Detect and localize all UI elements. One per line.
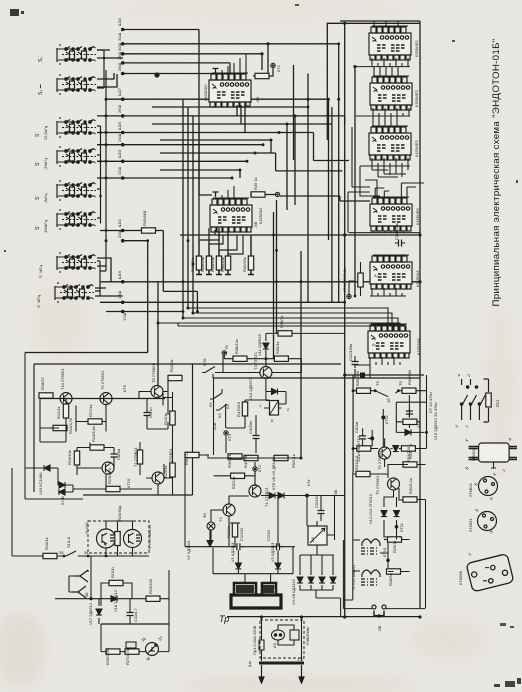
transistor T2 bbox=[223, 504, 235, 516]
plug -5V bbox=[372, 605, 386, 618]
wire amp box right edge bbox=[83, 364, 193, 495]
switch group S1 32Hz bbox=[57, 44, 96, 65]
wire x219 bbox=[218, 228, 220, 256]
svg-text:R15/2к: R15/2к bbox=[169, 359, 174, 372]
resistor R16 1k bbox=[43, 553, 57, 558]
trimmer box above R27 bbox=[126, 642, 136, 648]
T stub above D2 bbox=[213, 192, 219, 197]
svg-text:КТ8 V8-V9 ДВ142: КТ8 V8-V9 ДВ142 bbox=[271, 457, 276, 490]
svg-text:31Ш: 31Ш bbox=[117, 33, 122, 41]
wire rail y617 bbox=[227, 616, 420, 618]
resistor R21 vertical with leads bbox=[484, 379, 489, 422]
svg-text:,5кГц: ,5кГц bbox=[43, 193, 48, 203]
svg-text:R17/1к: R17/1к bbox=[88, 404, 93, 417]
wire amp rail y398.5 bbox=[40, 398, 165, 400]
diode pair 5U-V bbox=[59, 482, 65, 488]
wires lower relay bbox=[226, 415, 256, 453]
svg-text:A₂: A₂ bbox=[372, 342, 377, 347]
resistor R27 4.7k bbox=[125, 649, 139, 654]
svg-text:R2/24к: R2/24к bbox=[231, 476, 236, 489]
cap C13 bbox=[406, 408, 413, 418]
resistor R1 10k vertical bbox=[232, 523, 237, 537]
wire pin24 bbox=[97, 144, 263, 146]
svg-text:R23/2,7к: R23/2,7к bbox=[107, 468, 112, 484]
wire KT2 stem bbox=[254, 462, 256, 485]
resistor R40 6.8k bbox=[142, 228, 156, 233]
svg-text:К155ИЕ5: К155ИЕ5 bbox=[415, 207, 420, 225]
svg-text:100кГц: 100кГц bbox=[43, 219, 48, 233]
resistor R33 200 bbox=[403, 462, 417, 467]
svg-text:R33/200: R33/200 bbox=[406, 446, 411, 462]
resistor R32 33 bbox=[403, 419, 417, 424]
pin number labels bbox=[117, 17, 127, 321]
resistor R42 20k bbox=[248, 256, 253, 270]
resistor R4 10k bbox=[244, 455, 258, 460]
svg-text:КТ10: КТ10 bbox=[126, 478, 131, 488]
bus wires upper bbox=[95, 21, 420, 617]
diode V9 bbox=[278, 493, 284, 499]
test point KT3 bbox=[224, 431, 228, 435]
svg-text:-50В: -50В bbox=[212, 422, 217, 431]
cap X box bbox=[290, 630, 299, 640]
wire cluster rail G1-G2 bbox=[97, 50, 104, 88]
resistor R35 180 bbox=[357, 388, 371, 393]
wire to switch bbox=[353, 390, 404, 392]
wire pin25 bbox=[97, 133, 349, 161]
svg-text:A₁: A₁ bbox=[374, 273, 379, 278]
wire amp box left bbox=[33, 364, 35, 492]
diode V18 bbox=[111, 596, 117, 602]
switch dots bbox=[374, 389, 377, 392]
power inlet wires bbox=[262, 617, 302, 661]
wire IC column stubs bbox=[373, 21, 404, 127]
svg-text:КТ11: КТ11 bbox=[384, 414, 389, 424]
junction KT6 bbox=[306, 494, 309, 497]
A2 bottom pin wires bbox=[355, 356, 400, 378]
svg-text:V10 2Д5672: V10 2Д5672 bbox=[248, 377, 253, 400]
flipflop IC A2 K155TM2 bbox=[368, 324, 410, 358]
wire V10 loop bbox=[266, 392, 286, 405]
wire top rail corner bbox=[327, 23, 420, 140]
svg-text:R28/56: R28/56 bbox=[388, 572, 393, 586]
zener V17 bbox=[96, 609, 102, 615]
PSU wires bbox=[185, 455, 345, 617]
wire pin21 + R40 bbox=[100, 231, 197, 312]
wires A1 pins bbox=[349, 262, 406, 296]
wire T1 row y495.5 bbox=[261, 495, 345, 497]
wire y107 bbox=[152, 106, 308, 108]
switch K5 lever bbox=[210, 389, 222, 399]
diode V8 bbox=[269, 493, 275, 499]
wire pin19 long bbox=[100, 281, 420, 283]
transistor pinout 2T6821 bbox=[479, 477, 498, 496]
svg-text:Ш25: Ш25 bbox=[117, 121, 122, 130]
wire V11 to junction bbox=[265, 350, 267, 359]
D5 pin wires bbox=[360, 158, 410, 177]
svg-text:-5В: -5В bbox=[377, 625, 382, 632]
wire x328.5 bbox=[328, 99, 330, 240]
svg-text:29Ш: 29Ш bbox=[117, 52, 122, 60]
svg-text:Т1 2Т6В21: Т1 2Т6В21 bbox=[264, 486, 269, 507]
V16 wires bbox=[25, 353, 83, 500]
wires T5 row bbox=[353, 402, 426, 467]
svg-text:Ша: Ша bbox=[247, 660, 252, 667]
switch pack B2 bbox=[460, 379, 485, 420]
junction dots mesh bbox=[105, 42, 357, 313]
transistor T3 bbox=[260, 367, 272, 379]
svg-text:R25/243: R25/243 bbox=[148, 578, 153, 594]
wire left rail x353 bbox=[352, 375, 354, 472]
test point KT7 bbox=[275, 192, 279, 196]
wire x158 bbox=[157, 282, 159, 385]
svg-text:½ V19 МВ101: ½ V19 МВ101 bbox=[351, 564, 356, 590]
wire G2 stubs bbox=[97, 73, 117, 87]
resistor R31b 4.3k bbox=[357, 446, 371, 451]
svg-text:R13/4,7к: R13/4,7к bbox=[68, 418, 73, 434]
resistor R19 vertical bbox=[74, 451, 79, 465]
relay K coil bbox=[270, 401, 279, 416]
wire y140 bbox=[160, 140, 271, 153]
svg-text:V3-V8 КД1113: V3-V8 КД1113 bbox=[291, 579, 296, 605]
cap C1 150 bbox=[233, 543, 243, 550]
svg-text:С9/1н: С9/1н bbox=[148, 407, 153, 418]
svg-text:Т9 2Т6551: Т9 2Т6551 bbox=[100, 370, 105, 390]
junction dot V11 bbox=[264, 357, 267, 360]
scan registration mark top-left bbox=[10, 9, 24, 16]
opto lamp left bbox=[97, 529, 116, 548]
transistor T1 bbox=[249, 485, 261, 497]
plug pins bbox=[259, 665, 304, 683]
diode at T5 bbox=[393, 446, 399, 452]
svg-text:Т9: Т9 bbox=[224, 345, 229, 350]
wires D5 to D6 bbox=[360, 166, 406, 196]
resistor R23 2.7k bbox=[106, 486, 120, 491]
transistor T9 2T6551 bbox=[100, 393, 112, 405]
wire G1 stubs bbox=[97, 50, 123, 58]
svg-text:RЭ1: RЭ1 bbox=[202, 357, 207, 366]
svg-text:R16/1к: R16/1к bbox=[44, 537, 49, 550]
loop wires bbox=[101, 583, 132, 599]
svg-text:22Ш: 22Ш bbox=[117, 167, 122, 175]
svg-text:Sˈ: Sˈ bbox=[35, 132, 41, 137]
wire x308 bbox=[307, 74, 309, 303]
counter IC D4 K155IE2 bbox=[370, 76, 412, 110]
resistor R47 510 vertical bbox=[242, 402, 247, 416]
svg-text:R14/5,6к: R14/5,6к bbox=[91, 426, 96, 442]
wire x193 bbox=[192, 116, 194, 313]
svg-text:С12/150п: С12/150п bbox=[348, 344, 353, 361]
junction dots bbox=[63, 555, 108, 558]
resistor value labels bbox=[190, 257, 247, 272]
svg-text:Sˈ: Sˈ bbox=[35, 195, 41, 200]
wire y432.4 bbox=[396, 395, 424, 432]
wire x301 bbox=[300, 251, 302, 458]
wires junction row bbox=[224, 355, 301, 373]
svg-text:V1 КД1113: V1 КД1113 bbox=[230, 542, 235, 562]
wires bottom row bbox=[185, 455, 302, 458]
svg-text:К155ИЕ2: К155ИЕ2 bbox=[414, 139, 419, 157]
wire cluster rail G3-G6 bbox=[97, 126, 101, 224]
svg-text:Ш27: Ш27 bbox=[117, 87, 122, 96]
svg-text:Т3 ПТАТ1: Т3 ПТАТ1 bbox=[253, 351, 258, 370]
test point KT11 dot bbox=[381, 416, 385, 420]
svg-text:К155ТМ2: К155ТМ2 bbox=[416, 337, 421, 355]
svg-text:V16 КС168А: V16 КС168А bbox=[38, 472, 43, 495]
diode V7 bbox=[207, 541, 213, 547]
wire x199 bbox=[198, 124, 200, 256]
svg-text:К155ЛА2: К155ЛА2 bbox=[258, 207, 263, 224]
svg-text:R47/510: R47/510 bbox=[236, 401, 241, 417]
wire to KT7 bbox=[251, 195, 370, 202]
wire amp rail y378 bbox=[213, 377, 420, 379]
svg-text:МВ101: МВ101 bbox=[471, 448, 476, 461]
phone capsule 1 bbox=[361, 539, 380, 554]
svg-text:С6/1м: С6/1м bbox=[354, 422, 359, 433]
audio wires bbox=[343, 465, 425, 609]
wire x213.5 relay feed bbox=[213, 378, 215, 455]
svg-text:V15 2Д5612 33 470п: V15 2Д5612 33 470п bbox=[433, 402, 438, 440]
diode V15 bbox=[405, 429, 411, 435]
wire y235 bbox=[180, 234, 420, 236]
cap C12 150p bbox=[352, 358, 359, 368]
svg-text:С14/220к: С14/220к bbox=[394, 223, 399, 240]
scan mark bottom-right bbox=[494, 678, 521, 687]
cap C2 33 bbox=[273, 543, 283, 550]
svg-text:R11/1к: R11/1к bbox=[163, 413, 168, 425]
svg-text:К155ИЕ2: К155ИЕ2 bbox=[414, 89, 419, 107]
svg-text:S₁ˈ: S₁ˈ bbox=[38, 55, 44, 62]
diode V11 bbox=[263, 343, 269, 349]
wire x228 bbox=[227, 228, 229, 256]
wire T2 bbox=[211, 496, 249, 547]
svg-text:К5: К5 bbox=[208, 402, 213, 407]
opto wires bbox=[106, 521, 149, 556]
wire x287 bbox=[286, 124, 288, 210]
resistor R31 3.3 bbox=[356, 471, 370, 476]
wire y153 bbox=[160, 153, 276, 171]
wire rail y624 bbox=[101, 623, 169, 625]
svg-text:-5В: -5В bbox=[253, 221, 258, 228]
svg-text:R46/10к: R46/10к bbox=[220, 257, 225, 272]
wire G7 link bbox=[97, 258, 111, 282]
wire x295 bbox=[294, 116, 296, 205]
wire R1 C1 C2 bbox=[230, 523, 240, 547]
wire pin30 bbox=[123, 54, 262, 70]
svg-text:Т8 2Т6821: Т8 2Т6821 bbox=[151, 363, 156, 383]
svg-text:КТ9: КТ9 bbox=[122, 384, 127, 392]
cap C5 150 bbox=[318, 507, 325, 517]
resistor R12 1k vertical bbox=[63, 404, 68, 418]
svg-text:½ V19: ½ V19 bbox=[84, 522, 89, 534]
svg-text:К155ЛА3: К155ЛА3 bbox=[415, 270, 420, 287]
svg-text:R27/4,7к: R27/4,7к bbox=[125, 649, 130, 665]
svg-text:,25кГц: ,25кГц bbox=[43, 158, 48, 170]
junction dot C6 bbox=[370, 436, 374, 440]
resistor R43 20k bbox=[206, 256, 211, 270]
wire top right connect bbox=[340, 20, 420, 22]
svg-text:А3: А3 bbox=[272, 642, 277, 648]
test point KT1 bbox=[271, 63, 275, 67]
bridge diodes V3-V6 bbox=[297, 577, 303, 583]
resistor R46 10k bbox=[225, 256, 230, 270]
zener V16 KS168A bbox=[44, 465, 50, 471]
svg-text:R21: R21 bbox=[495, 399, 500, 407]
wire pin28 bbox=[123, 73, 223, 75]
svg-text:-5В: -5В bbox=[255, 96, 260, 103]
switch group S6 100Hz bbox=[57, 209, 96, 230]
counter IC D6 K155IE5 bbox=[370, 197, 412, 231]
cap C14 220 bbox=[395, 240, 405, 247]
switch group S4 .25kHz bbox=[57, 146, 96, 167]
switch group S2 square-wave bbox=[57, 74, 96, 95]
wire amp box top bbox=[34, 363, 341, 365]
svg-text:Sˈ МГц: Sˈ МГц bbox=[38, 264, 43, 278]
svg-text:2Т6В21: 2Т6В21 bbox=[468, 482, 473, 497]
wire D2 top stubs bbox=[222, 186, 234, 199]
resistor R26 220k bbox=[106, 649, 120, 654]
resistor R5 5.1k bbox=[274, 455, 288, 460]
pin dots bbox=[121, 28, 160, 314]
T stub above D1 bbox=[213, 69, 219, 74]
transistor T6 2T6551 bbox=[388, 478, 400, 490]
svg-text:R30/5,1к: R30/5,1к bbox=[408, 478, 413, 494]
wire pin31 bbox=[123, 44, 339, 303]
wire pin22 bbox=[97, 177, 232, 179]
svg-text:С1/150: С1/150 bbox=[239, 527, 244, 541]
power transistor package KT805 bbox=[466, 554, 514, 592]
svg-text:R12/1к: R12/1к bbox=[56, 406, 61, 419]
transistor T6 KT315 bbox=[102, 462, 114, 474]
svg-text:1б́: 1б́ bbox=[386, 398, 391, 403]
wire left rail bbox=[12, 468, 106, 556]
svg-text:КТ2: КТ2 bbox=[257, 464, 262, 472]
wire pin20 corner x148 bbox=[123, 241, 148, 353]
switch group S8 bbox=[55, 282, 94, 303]
wire R50 bbox=[266, 333, 345, 341]
svg-text:R18/27: R18/27 bbox=[40, 376, 45, 390]
svg-text:V2 КД1113: V2 КД1113 bbox=[270, 542, 275, 562]
wire A6 bbox=[307, 496, 335, 556]
D4 pin wires bbox=[356, 108, 410, 116]
svg-text:R19/10к: R19/10к bbox=[67, 450, 72, 465]
headphone jack 1 bbox=[74, 570, 88, 582]
wire pin32 rail bbox=[123, 29, 199, 31]
diode V2 bbox=[275, 563, 281, 569]
svg-text:С8/1м: С8/1м bbox=[116, 449, 121, 460]
transistor T8 2T6821 bbox=[151, 386, 163, 398]
wire D1 top stubs bbox=[222, 54, 246, 74]
svg-text:Пр1 0,25А 250В: Пр1 0,25А 250В bbox=[252, 625, 257, 655]
svg-text:R26/220к: R26/220к bbox=[105, 648, 110, 665]
svg-text:С11/4,7: С11/4,7 bbox=[133, 608, 138, 622]
wire driver top rail bbox=[345, 374, 424, 376]
meter M1 bbox=[146, 643, 159, 656]
resistor R39 1k bbox=[251, 192, 265, 197]
test point KT10 dot bbox=[386, 559, 390, 563]
test point KT2 bbox=[253, 467, 257, 471]
wire x209 bbox=[208, 228, 210, 256]
svg-text:33: 33 bbox=[416, 423, 421, 428]
wire x251 bbox=[250, 235, 252, 256]
wire x183 bbox=[182, 99, 184, 318]
headphone jack 2 bbox=[72, 586, 86, 598]
svg-text:К155ИЕ2: К155ИЕ2 bbox=[414, 39, 419, 57]
transformer Tr core bbox=[231, 583, 281, 608]
resistor R14 5.6k bbox=[90, 445, 104, 450]
resistor R50 1k bbox=[278, 331, 292, 336]
extra junction dots bbox=[105, 22, 429, 619]
svg-text:1 2: 1 2 bbox=[297, 657, 303, 662]
svg-text:Т5 2Т6551: Т5 2Т6551 bbox=[377, 450, 382, 470]
svg-text:Sˈ: Sˈ bbox=[35, 225, 41, 230]
switch group S3 12.5kHz bbox=[57, 117, 96, 138]
svg-text:R44/20к: R44/20к bbox=[210, 257, 215, 272]
resistor R15 right top bbox=[168, 375, 182, 380]
connector rail bbox=[100, 70, 106, 271]
power inlet dashed box bbox=[260, 620, 304, 658]
plug bar bbox=[259, 662, 304, 665]
regulator A6 box bbox=[308, 526, 327, 545]
wire r15 bbox=[163, 392, 165, 406]
wire x172.5 column bbox=[163, 392, 173, 495]
svg-text:Т2: Т2 bbox=[218, 517, 223, 522]
test point KT3a bbox=[222, 351, 226, 355]
wires T3 row bbox=[223, 355, 301, 391]
transistor T11 bbox=[152, 472, 164, 484]
svg-text:R3/5,1к: R3/5,1к bbox=[227, 454, 232, 468]
svg-text:R4/10к: R4/10к bbox=[243, 455, 248, 468]
svg-text:17Ш: 17Ш bbox=[122, 313, 127, 321]
A6 arrow bbox=[310, 528, 325, 543]
cap C9 1n bbox=[144, 409, 151, 419]
wires from D2 pins to resistors bbox=[199, 230, 251, 256]
svg-text:R5/5,1к: R5/5,1к bbox=[291, 454, 296, 468]
svg-text:Ш32: Ш32 bbox=[117, 17, 122, 26]
bridge wires bbox=[300, 555, 341, 617]
transistor pinout 2T6551 bbox=[478, 512, 497, 531]
switch V5 lever bbox=[375, 391, 398, 397]
wire x237-248 IC1 pins down bbox=[237, 105, 248, 133]
svg-text:30Ш: 30Ш bbox=[117, 43, 122, 51]
svg-text:КТ805Б: КТ805Б bbox=[458, 571, 463, 585]
resistor R33 200 bbox=[401, 446, 415, 451]
counter IC D5 K155IE2 bbox=[369, 126, 411, 160]
wire R31 to KT1 bbox=[253, 68, 273, 76]
diode V10 bbox=[272, 389, 278, 395]
resistor R28 56 bbox=[387, 569, 401, 574]
svg-text:28Ш: 28Ш bbox=[117, 63, 122, 71]
resistor R20 vertical bbox=[137, 450, 142, 464]
D3 pin wires bbox=[355, 58, 410, 67]
switch K3 lever bbox=[216, 404, 227, 410]
svg-text:Тб: Тб bbox=[398, 381, 403, 386]
svg-text:Ш21: Ш21 bbox=[117, 218, 122, 227]
svg-text:R43/20к: R43/20к bbox=[200, 257, 205, 272]
resistor R22 1k bbox=[170, 463, 175, 477]
wire x355 bbox=[354, 67, 356, 296]
wire y124 bbox=[152, 107, 332, 302]
svg-text:КТ4 R37/2,2к: КТ4 R37/2,2к bbox=[342, 268, 347, 292]
resistor R3b 5.1k bbox=[228, 454, 242, 459]
relay diagonal bbox=[270, 401, 279, 416]
phone capsule 2 bbox=[361, 570, 380, 585]
ground bars under resistors bbox=[196, 270, 254, 275]
svg-text:38: 38 bbox=[84, 592, 89, 597]
neon lamp bbox=[272, 630, 285, 640]
svg-text:12,5кГц: 12,5кГц bbox=[43, 125, 48, 140]
wire G8 link bbox=[95, 288, 123, 296]
svg-text:R24/30д: R24/30д bbox=[117, 505, 122, 521]
